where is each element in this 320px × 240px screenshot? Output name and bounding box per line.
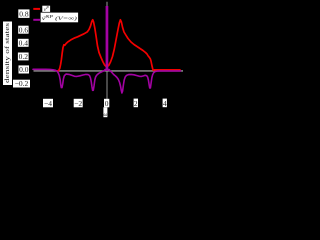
svg-text:0.0: 0.0 [19,65,29,74]
svg-text:−2: −2 [74,99,82,108]
legend: red line sample [33,8,40,10]
svg-text:2: 2 [134,99,138,108]
y axis title: density of states [3,22,12,86]
svg-text:−0.2: −0.2 [15,79,29,88]
red curve rho^P [58,20,181,71]
x tick label -2 [74,99,83,108]
y tick label 0.0 [19,65,30,73]
purple central spike (delta peak at omega=0) [106,6,109,71]
y tick label -0.2 [13,80,30,88]
svg-text:0.2: 0.2 [19,52,29,61]
y-axis line stub above purple spike [106,2,108,7]
y-axis line (below origin) [106,71,108,99]
legend: label delta-rho (V=inf) [41,13,79,23]
x tick label -4 [43,99,53,108]
svg-text:ω: ω [103,112,107,118]
svg-text:0.4: 0.4 [19,38,29,47]
legend: purple line sample [33,19,40,21]
x tick label 0 [104,99,109,108]
svg-text:0: 0 [105,99,109,108]
svg-text:density of states: density of states [4,22,11,83]
x axis title omega [103,107,107,117]
svg-text:0.6: 0.6 [19,25,29,34]
y tick label 0.4 [18,39,29,47]
svg-text:0.8: 0.8 [19,9,29,18]
legend: label rho^P [42,6,50,12]
x-axis line [34,70,184,72]
svg-text:−4: −4 [44,99,52,108]
y tick label 0.8 [18,9,29,18]
y tick label 0.2 [18,53,29,61]
purple curve delta-rho (V=inf) [33,69,181,93]
y tick label 0.6 [18,26,28,34]
x tick label 4 [163,99,167,108]
svg-text:4: 4 [163,99,167,108]
x tick label 2 [134,99,138,108]
